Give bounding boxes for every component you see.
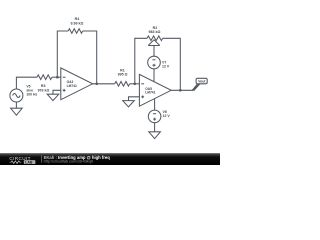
wire R2 loop left vertical (135, 38, 147, 84)
label V5 sine 100 Hz (26, 84, 37, 96)
resistor R2 (147, 36, 163, 41)
node junction feedback input (56, 76, 59, 79)
svg-text:http://circuitlab.com/c6r43kq9: http://circuitlab.com/c6r43kq9 (44, 160, 93, 164)
voltage source V5 (sine) (10, 89, 23, 102)
watermark separator (41, 155, 43, 163)
op-amp OA3 LM741 (61, 68, 93, 100)
ground at OA5 plus input (123, 101, 135, 107)
ground below V5 (11, 108, 23, 115)
node junction OA5 output (179, 89, 182, 92)
watermark bar (0, 153, 220, 165)
label R2 983 kohm (148, 26, 160, 34)
resistor R1 (115, 82, 130, 87)
label R1 995 ohm (118, 68, 128, 76)
wire OA5 plus input stub (129, 97, 140, 101)
label R4 9.99 kohm (70, 17, 83, 25)
wire R2 loop right vertical (163, 38, 181, 90)
flipped ground at V7 minus (148, 40, 160, 46)
wire V7 top stub (153, 45, 155, 56)
label V7 12 V (162, 61, 170, 69)
voltage source V6 (148, 110, 161, 123)
output flag Vout (191, 78, 207, 91)
node junction R2 tap (134, 83, 137, 86)
wire OA5 supply to V6 (154, 99, 156, 111)
wire V5 bottom to ground (15, 102, 17, 108)
resistor R4 (68, 29, 82, 34)
wire OA3 plus input stub (53, 90, 61, 94)
ground at OA3 plus input (47, 94, 59, 100)
label R3 976 kohm (38, 84, 50, 92)
label OA3 LM741 (67, 80, 77, 88)
op-amp OA5 LM741 (139, 74, 171, 106)
wire V5 top to R3 (16, 77, 37, 89)
wire feedback left vertical (57, 31, 68, 77)
wire feedback top right vertical (83, 31, 97, 84)
wire R3 to op-amp inverting input (52, 76, 61, 78)
ground below V6 (149, 132, 161, 139)
label OA5 LM741 (145, 87, 155, 95)
wire OA3 output to R1 (93, 83, 115, 85)
node junction OA3 output (95, 83, 98, 86)
label V6 12 V (163, 110, 171, 118)
voltage source V7 (148, 56, 161, 69)
wire R1 to OA5 inverting input (130, 83, 140, 85)
resistor R3 (37, 75, 52, 80)
wire V7 to OA5 supply (153, 69, 155, 82)
wire V6 bottom to ground (154, 123, 156, 132)
wire OA5 output to Vout (171, 89, 193, 91)
CircuitLab logo (9, 156, 35, 165)
svg-text:LAB: LAB (25, 160, 33, 164)
